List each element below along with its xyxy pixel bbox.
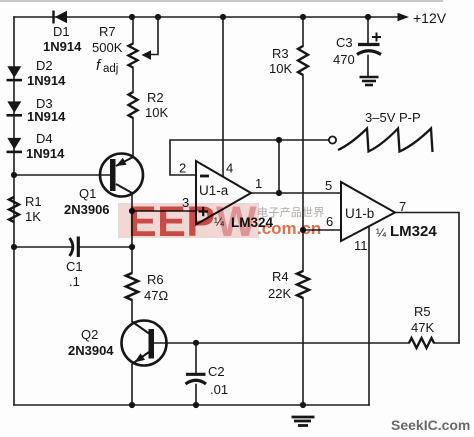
diode D2 [7, 66, 23, 81]
wire left rail [13, 17, 15, 405]
transistor Q2 [122, 321, 167, 366]
wire test point stub [279, 139, 329, 141]
svg-text:C2: C2 [208, 364, 225, 379]
test point open circle [329, 136, 336, 143]
svg-text:11: 11 [354, 238, 368, 253]
svg-text:2N3906: 2N3906 [64, 202, 110, 217]
svg-text:LM324: LM324 [390, 223, 437, 240]
svg-text:adj: adj [103, 63, 118, 75]
svg-text:Q2: Q2 [81, 327, 98, 342]
svg-text:5: 5 [325, 178, 332, 193]
junction R7 top [129, 14, 135, 20]
svg-text:.01: .01 [210, 382, 228, 397]
watermark pink block [118, 203, 259, 238]
resistor R1 [9, 197, 19, 222]
svg-text:U1-a: U1-a [199, 183, 229, 198]
svg-text:500K: 500K [92, 40, 123, 55]
junction R3 top [300, 14, 306, 20]
+12V arrow [398, 13, 410, 22]
svg-text:1K: 1K [25, 209, 41, 224]
ground under C3 [360, 77, 379, 85]
svg-text:10K: 10K [269, 61, 292, 76]
wire pin11 column [368, 227, 370, 406]
capacitor C3 [357, 45, 381, 55]
U1-a plus [199, 207, 209, 216]
svg-text:470: 470 [333, 52, 355, 67]
svg-text:1N914: 1N914 [43, 39, 82, 54]
wire feedback vertical [278, 140, 280, 193]
sawtooth waveform [338, 129, 433, 153]
top scan border line [0, 0, 443, 2]
svg-text:6: 6 [326, 214, 333, 229]
svg-text:D1: D1 [53, 24, 70, 39]
wire top rail [14, 16, 398, 18]
svg-text:C1: C1 [66, 259, 83, 274]
resistor R3 [298, 46, 308, 75]
wire bottom rail [14, 404, 369, 406]
wire feedback loop pin2 [170, 140, 279, 175]
svg-text:3–5V P-P: 3–5V P-P [365, 110, 421, 125]
svg-text:R6: R6 [147, 272, 164, 287]
svg-text:R3: R3 [272, 46, 289, 61]
junction Q1 base node [11, 172, 17, 178]
wire R3/R4 column [302, 17, 304, 405]
svg-text:R4: R4 [272, 269, 289, 284]
junction pin4 supply [220, 14, 226, 20]
junction Q2 emitter ground [129, 402, 135, 408]
resistor R6 [126, 273, 138, 300]
svg-text:R5: R5 [414, 304, 431, 319]
svg-text:D4: D4 [36, 131, 53, 146]
junction U1-a output node [276, 190, 282, 196]
diode D4 [7, 138, 23, 153]
svg-text:U1-b: U1-b [345, 206, 374, 221]
junction C2 top node [193, 340, 199, 346]
svg-text:2N3904: 2N3904 [68, 343, 114, 358]
svg-text:C3: C3 [336, 35, 353, 50]
diode D3 [7, 101, 23, 116]
svg-text:7: 7 [399, 199, 406, 214]
wire pin3 row [132, 210, 196, 212]
svg-text:1N914: 1N914 [27, 73, 66, 88]
op-amp U1-a [196, 161, 251, 225]
svg-text:4: 4 [226, 161, 233, 176]
junction C3 top [365, 14, 371, 20]
junction ground node [300, 402, 306, 408]
wire C3 column [367, 17, 369, 76]
svg-text:1N914: 1N914 [27, 109, 66, 124]
svg-text:W: W [216, 198, 257, 246]
svg-text:R2: R2 [147, 90, 164, 105]
junction feedback top [276, 137, 282, 143]
svg-text:EEP: EEP [128, 198, 216, 246]
wire Q1 collector column [131, 194, 133, 406]
resistor R7 [129, 44, 138, 68]
diode D1 [52, 11, 67, 24]
svg-text:1: 1 [255, 176, 262, 191]
wire pin4 column [222, 17, 224, 177]
wire R7/R2 column [132, 17, 134, 157]
junction pin6 node [300, 227, 306, 233]
potentiometer wiper arrow R7 [142, 50, 152, 59]
svg-text:.1: .1 [69, 274, 80, 289]
junction C1 right node [129, 244, 135, 250]
wire C1 row [14, 246, 132, 248]
svg-text:电子产品世界: 电子产品世界 [257, 205, 325, 219]
svg-text:47Ω: 47Ω [144, 288, 168, 303]
svg-text:22K: 22K [268, 286, 291, 301]
U1-a minus [200, 175, 209, 178]
svg-text:47K: 47K [411, 320, 434, 335]
transistor Q1 [100, 154, 143, 197]
op-amp U1-b [341, 182, 395, 241]
capacitor C1 [70, 237, 79, 258]
wire pin6 row [303, 229, 341, 231]
svg-text:1N914: 1N914 [26, 146, 65, 161]
svg-text:R1: R1 [25, 194, 42, 209]
wire C2 column [195, 343, 197, 405]
svg-text:R7: R7 [99, 24, 116, 39]
svg-text:.com.cn: .com.cn [257, 219, 321, 238]
svg-text:SeekIC.com: SeekIC.com [391, 417, 470, 433]
svg-text:Q1: Q1 [79, 186, 96, 201]
watermark group [118, 198, 325, 246]
junction C1 left node [11, 244, 17, 250]
svg-text:10K: 10K [145, 105, 168, 120]
ground main [292, 417, 315, 426]
wire Q2 base / R5 row [154, 342, 459, 344]
svg-text:D2: D2 [36, 58, 53, 73]
resistor R2 [129, 92, 138, 118]
wire U1-b output and right column [395, 213, 459, 344]
C3 plus sign [372, 33, 381, 42]
svg-text:2: 2 [179, 161, 186, 176]
resistor R5 [409, 338, 434, 348]
svg-text:¼: ¼ [376, 226, 387, 240]
wire Q1 base row [14, 174, 110, 176]
resistor R4 [297, 271, 309, 298]
junction C2 ground [193, 402, 199, 408]
wire U1-a output row [251, 192, 341, 194]
junction pin3 node [129, 208, 135, 214]
wire wiper stub [148, 17, 158, 55]
capacitor C2 [186, 374, 207, 384]
svg-text:+12V: +12V [413, 10, 447, 26]
junction wiper top [155, 14, 161, 20]
